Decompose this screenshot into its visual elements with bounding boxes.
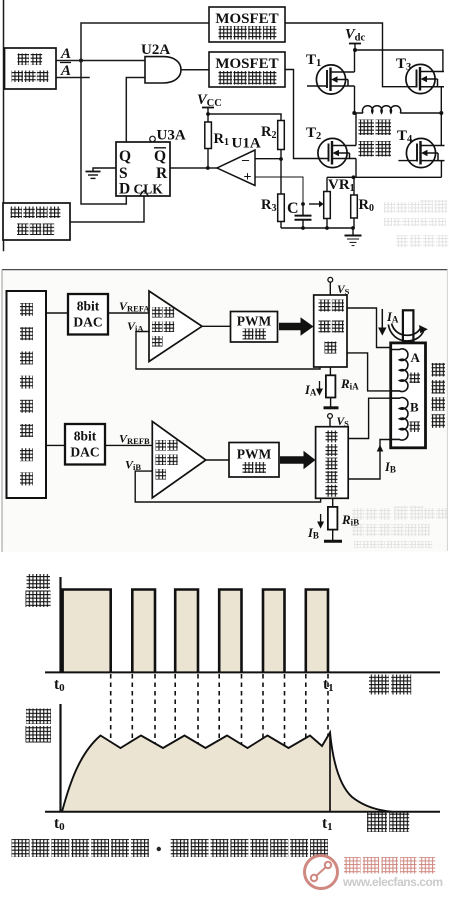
wire U1A inverting input bbox=[255, 158, 281, 160]
wire net A from ring distributor to U2A bbox=[56, 60, 145, 62]
wire feedback A to comparator bbox=[136, 332, 320, 370]
wire net A-bar stub bbox=[56, 77, 89, 79]
transistor T4 bbox=[406, 138, 444, 167]
wire T2 drain up to winding node bbox=[355, 113, 357, 146]
label U3A with bubble bbox=[150, 136, 156, 142]
wire comparator B output to PWM B bbox=[206, 459, 229, 461]
block power drive stage B bbox=[316, 427, 349, 499]
power Vs terminal B bbox=[328, 414, 333, 427]
potentiometer VR1 bbox=[309, 177, 355, 228]
svg-text:PWM: PWM bbox=[237, 447, 272, 462]
wire drive1 output down to T3 gate bbox=[285, 23, 417, 87]
current waveform fill bbox=[62, 733, 392, 812]
resistor RiA bbox=[326, 367, 359, 398]
label voltage axis (dianya) bbox=[27, 574, 51, 589]
comparator B (voltage comparator) bbox=[152, 421, 206, 497]
ground main bbox=[345, 228, 362, 246]
svg-text:–: – bbox=[241, 153, 250, 168]
svg-text:Q: Q bbox=[119, 148, 131, 165]
ground at S input bbox=[86, 168, 117, 178]
label current axis (dianliu) bbox=[26, 709, 51, 725]
svg-text:D: D bbox=[119, 181, 130, 198]
wire MCU to DAC B bbox=[46, 444, 65, 446]
wire stage A lower output to phase A bottom bbox=[347, 353, 391, 391]
svg-text:C: C bbox=[287, 200, 299, 217]
svg-text:8bit: 8bit bbox=[74, 429, 97, 444]
wire DAC B to comparator B bbox=[105, 444, 152, 446]
wire winding right node down to T4 drain bbox=[440, 113, 442, 146]
node R2 bottom / U1A inverting input bbox=[279, 157, 283, 161]
wire U2A output to MOSFET drive 2 input bbox=[181, 69, 209, 71]
power Vdc terminal bbox=[345, 27, 366, 53]
arrow PWM A to power stage A bbox=[279, 317, 314, 336]
wire node A down to D input of U3A bbox=[81, 61, 126, 205]
decorative bbox=[305, 856, 444, 890]
svg-text:U2A: U2A bbox=[141, 42, 170, 58]
svg-text:MOSFET: MOSFET bbox=[215, 56, 278, 72]
ground RiB bbox=[332, 530, 334, 541]
axis voltage Y bbox=[59, 577, 61, 672]
wire U1A output to R input of U3A bbox=[170, 167, 217, 169]
rotor shaft arrow bbox=[388, 310, 428, 342]
power Vs terminal A bbox=[328, 277, 333, 295]
wire node A up to MOSFET drive 1 input bbox=[81, 23, 209, 61]
pulse 3 voltage waveform bbox=[175, 590, 198, 673]
block MOSFET drive circuit 2 bbox=[209, 52, 285, 87]
wire T2 source down to source rail bbox=[355, 159, 357, 178]
line t1 marker bbox=[329, 733, 331, 812]
annotation IA current arrow bbox=[379, 309, 386, 335]
current waveform curve bbox=[62, 733, 392, 812]
wire T1 gate stub bbox=[307, 85, 327, 87]
resistor R2 bbox=[261, 114, 284, 159]
svg-text:+: + bbox=[244, 170, 252, 185]
svg-text:A: A bbox=[411, 350, 421, 365]
inductor phase A winding bbox=[391, 349, 408, 392]
resistor R0 bbox=[351, 177, 374, 228]
wire feedback B to comparator bbox=[135, 471, 320, 502]
decorative bbox=[384, 200, 448, 247]
wire clock from pulse generator to CLK bbox=[70, 196, 144, 222]
dashed projection lines bbox=[111, 674, 328, 746]
axis current Y bbox=[59, 704, 61, 812]
caption: constant-current chopper drive, voltage vs current relation bbox=[12, 839, 30, 857]
block 8bit DAC B bbox=[65, 424, 105, 465]
block stepper motor bbox=[391, 343, 426, 448]
inductor phase B winding bbox=[391, 398, 408, 441]
svg-text:U3A: U3A bbox=[157, 128, 186, 144]
transistor T2 bbox=[318, 138, 356, 167]
svg-text:A: A bbox=[60, 63, 71, 79]
wire drive2 output down to T2 gate bbox=[285, 70, 329, 159]
svg-text:PWM: PWM bbox=[237, 314, 272, 329]
op-amp U1A bbox=[217, 136, 303, 205]
pulse 1 voltage waveform bbox=[63, 590, 111, 673]
svg-text:U1A: U1A bbox=[232, 136, 261, 152]
resistor R3 bbox=[261, 159, 284, 228]
decorative bbox=[352, 506, 447, 548]
node A junction bbox=[79, 59, 83, 63]
block MOSFET drive circuit 1 bbox=[209, 7, 285, 42]
block PWM drive B bbox=[229, 443, 279, 478]
pulse 4 voltage waveform bbox=[219, 590, 241, 673]
wire stage B lower output to phase B bottom with IB arrow bbox=[348, 440, 391, 480]
pulse 5 voltage waveform bbox=[263, 590, 285, 673]
label motor winding (dianji raozu) bbox=[359, 120, 375, 136]
svg-text:Q: Q bbox=[154, 148, 166, 165]
svg-text:R: R bbox=[156, 165, 168, 182]
wire T1 source down to winding node bbox=[354, 86, 356, 113]
block PWM drive A bbox=[231, 312, 278, 343]
wire U1A non-inverting input to C / VR1 wiper node bbox=[255, 177, 303, 204]
svg-text:DAC: DAC bbox=[73, 315, 102, 330]
transistor T3 bbox=[406, 64, 444, 93]
block constant-frequency pulse generator bbox=[3, 203, 70, 240]
wire bottom rail R3/C/VR1/R0 bbox=[281, 227, 354, 229]
wire left border line bbox=[3, 0, 5, 203]
svg-text:8bit: 8bit bbox=[77, 299, 100, 314]
label stepper motor (bujin dianji) bbox=[432, 363, 446, 377]
svg-text:VS: VS bbox=[337, 284, 350, 297]
axis current X (time) bbox=[45, 811, 440, 813]
pin CLK edge mark bbox=[140, 191, 149, 197]
middle panel frame bbox=[2, 270, 448, 552]
resistor R1 bbox=[205, 114, 229, 168]
AND gate U2A bbox=[141, 42, 181, 83]
pulse 6 voltage waveform bbox=[306, 590, 328, 673]
wire stage B upper output to phase B top bbox=[348, 398, 391, 438]
svg-text:MOSFET: MOSFET bbox=[215, 11, 278, 27]
svg-text:S: S bbox=[119, 165, 128, 182]
block power drive stage A bbox=[314, 295, 347, 367]
node U1A output / R1 bottom bbox=[206, 166, 210, 170]
inductor motor winding bbox=[354, 106, 441, 113]
pulse 2 voltage waveform bbox=[132, 590, 155, 673]
svg-text:www.elecfans.com: www.elecfans.com bbox=[342, 875, 443, 889]
wiper arrow bbox=[309, 203, 319, 205]
wire comparator A output to PWM A bbox=[202, 325, 231, 327]
axis voltage X (time) bbox=[45, 671, 440, 673]
svg-text:CLK: CLK bbox=[134, 182, 164, 197]
wire U3A Q output up to U2A lower input bbox=[126, 78, 145, 143]
block ring distributor (huanxing fenpeiqi) bbox=[5, 48, 57, 89]
label time top plot (shijian) bbox=[369, 675, 389, 695]
label time bottom plot (shijian) bbox=[367, 812, 387, 832]
wire DAC A to comparator A bbox=[108, 312, 149, 314]
wire T4 source down to source rail bbox=[440, 161, 442, 178]
comparator A (voltage comparator) bbox=[149, 291, 202, 362]
svg-text:B: B bbox=[410, 400, 419, 415]
svg-text:A: A bbox=[60, 46, 71, 62]
flip-flop U3A bbox=[116, 128, 186, 198]
ground RiA bbox=[330, 398, 332, 408]
power Vcc terminal bbox=[197, 92, 222, 116]
block 8bit DAC A bbox=[68, 294, 108, 335]
annotation IA through RiA bbox=[317, 381, 322, 395]
wire Vdc down to T1 drain bbox=[354, 50, 356, 72]
svg-text:DAC: DAC bbox=[70, 445, 99, 460]
annotation IB through RiB bbox=[318, 514, 323, 528]
transistor T1 bbox=[316, 65, 354, 94]
wire stage A upper output to phase A top bbox=[347, 308, 391, 348]
wire source rail to VR1/R0 bbox=[327, 176, 441, 178]
wire Vcc rail bbox=[208, 113, 281, 115]
block microcomputer system bbox=[7, 291, 47, 498]
wire MCU to DAC A bbox=[46, 312, 68, 314]
wire Vdc rail to T3 drain bbox=[355, 50, 443, 71]
resistor RiB bbox=[328, 498, 359, 529]
capacitor C bbox=[287, 200, 312, 228]
arrow PWM B to power stage B bbox=[280, 451, 316, 470]
wire T3 source down to winding right node bbox=[440, 87, 442, 113]
wire T4 gate stub bbox=[398, 160, 417, 162]
